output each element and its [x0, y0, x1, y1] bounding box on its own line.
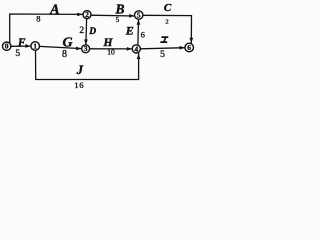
wire activity F: 0 to 1 [11, 45, 30, 47]
wire activity A: 0 to 2 (up then right) [10, 14, 83, 43]
svg-text:E: E [125, 24, 134, 38]
svg-text:B: B [114, 2, 124, 17]
wire activity J: 1 down, right, up to 4 [36, 51, 139, 80]
arrowhead C into node 6 (down) [190, 38, 194, 43]
ink dot after label F (scan mark) [26, 44, 28, 46]
arrowhead G into node 3 [76, 47, 82, 51]
arrowhead B into node 5 [129, 14, 134, 18]
node 2 [83, 11, 91, 19]
svg-text:D: D [88, 27, 96, 37]
svg-text:5: 5 [15, 49, 20, 59]
label activity I [160, 36, 168, 43]
svg-text:8: 8 [62, 49, 67, 60]
svg-text:10: 10 [107, 48, 115, 57]
arrowhead D into node 3 (down) [84, 39, 88, 44]
svg-text:5: 5 [137, 10, 141, 19]
node 1 [31, 42, 40, 51]
svg-text:2: 2 [79, 26, 84, 36]
wire activity G: 1 to 3 [40, 46, 82, 48]
arrowhead A into node 2 [77, 13, 83, 17]
svg-text:0: 0 [5, 42, 9, 51]
svg-text:C: C [164, 2, 172, 14]
node 3 [82, 45, 90, 53]
node 5 [135, 11, 143, 19]
svg-text:J: J [76, 63, 84, 77]
svg-text:F: F [17, 37, 26, 49]
wire activity H: 3 to 4 [90, 48, 132, 50]
wire activity D: 2 to 3 (vertical) [85, 19, 88, 45]
svg-text:2: 2 [165, 18, 168, 25]
svg-text:6: 6 [187, 43, 191, 52]
node 6 [185, 43, 194, 52]
svg-text:2: 2 [85, 10, 89, 19]
svg-text:6: 6 [141, 29, 145, 39]
svg-text:5: 5 [160, 50, 165, 60]
arrowhead H into node 4 [127, 47, 132, 51]
svg-text:A: A [49, 2, 60, 18]
wire activity B: 2 to 5 [91, 14, 134, 17]
node 4 [132, 45, 140, 53]
svg-text:1: 1 [33, 41, 37, 50]
arrowhead F into node 1 [25, 44, 30, 48]
svg-text:16: 16 [74, 80, 84, 90]
arrowhead I into node 6 [180, 46, 185, 50]
svg-text:8: 8 [36, 14, 40, 24]
arrowhead E into node 5 (up) [137, 19, 141, 24]
svg-text:5: 5 [116, 16, 120, 24]
wire activity I: 4 to 6 [141, 48, 185, 49]
wire activity C: 5 right then down to 6 [143, 15, 191, 43]
svg-text:3: 3 [84, 44, 88, 53]
node 0 [3, 42, 11, 50]
arrowhead J into node 4 (up) [137, 54, 141, 59]
wire activity E: 4 to 5 (vertical up) [137, 20, 140, 45]
svg-text:4: 4 [134, 44, 138, 53]
